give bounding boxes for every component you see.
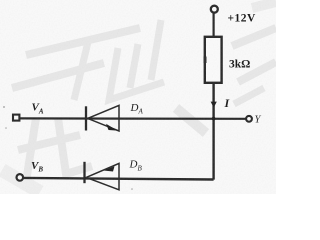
watermark stroke (bottom-left char hook) [58,118,92,174]
wire: resistor bottom down to bottom row corner [212,83,214,180]
wire: +12V terminal to resistor top [213,12,215,36]
watermark stroke (bottom-left char leg) [26,118,36,182]
ink speck left margin 2 [5,127,7,129]
watermark stroke (bottom-middle diagonal) [176,108,206,133]
paper background [0,0,276,194]
terminal +12V (open circle) [211,6,218,13]
ink speck bottom center [131,188,133,190]
diode D_A ink blob on lower slant [106,124,118,131]
diode D_A cathode bar [85,106,87,130]
watermark corner shade top-right [252,2,276,8]
watermark stroke (right char slant 1) [232,28,276,46]
watermark stroke (right leg with hook) [109,48,164,100]
watermark corner shade bottom-left [2,170,40,192]
junction node (dot) [212,117,216,121]
terminal Y (open circle) [246,116,252,122]
watermark stroke (right char slant 2) [238,62,276,82]
resistor R 3k (rectangle) [205,37,222,83]
diode D_B triangle (points left) [86,163,119,189]
ink mark on resistor left edge [204,57,207,64]
watermark stroke (bottom-left char bar) [18,135,80,150]
ink speck left margin [3,106,5,108]
watermark stroke (second bar) [12,63,104,88]
watermark stroke (left leg) [74,42,88,100]
watermark stroke (top horizontal bar of rotated char) [2,2,276,192]
diode D_B ink blob on upper slant [104,166,115,171]
diode D_A triangle (points left) [88,105,119,131]
wire: bottom input row V_B to corner [23,178,214,180]
terminal V_B (open circle) [17,174,24,181]
diode D_B cathode bar [83,162,85,183]
current arrowhead I (downward) [211,102,217,108]
scan grain overlay [0,0,276,194]
watermark stroke (right char slant 3) [234,88,264,104]
watermark stroke (heart radical stroke 1) [130,44,138,88]
terminal V_A (open square) [13,115,19,121]
wire: top input row V_A to output [20,117,247,120]
watermark stroke (heart radical stroke 2) [151,20,161,80]
